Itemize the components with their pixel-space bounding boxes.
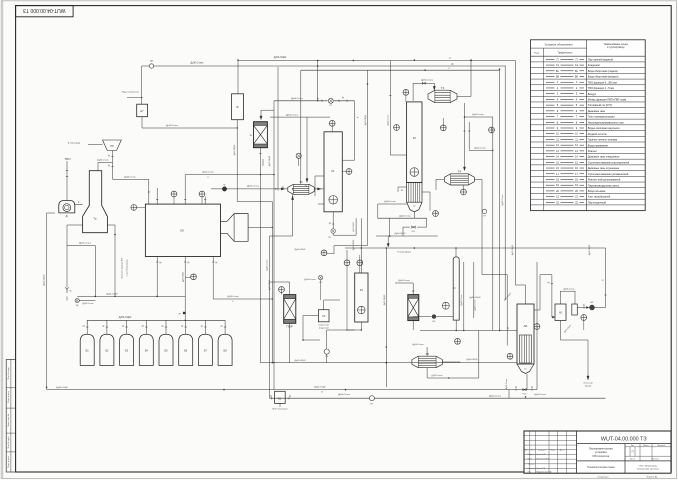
svg-text:Ду25-Сталь: Ду25-Сталь — [432, 375, 443, 377]
svg-text:Ду50-Сталь: Ду50-Сталь — [304, 279, 315, 281]
nozzle to vertical line — [248, 226, 272, 228]
K1 feed line with valve K7 — [274, 100, 328, 102]
legend row 17: Реагент — [531, 152, 646, 154]
svg-text:в контейнер бункер: в контейнер бункер — [126, 259, 129, 276]
valve ZD ball — [75, 299, 79, 303]
svg-text:установка: установка — [595, 451, 607, 454]
pump VR — [590, 305, 595, 310]
svg-text:Инв. № подл.: Инв. № подл. — [7, 366, 10, 379]
OK bottom pipes — [156, 257, 158, 297]
svg-text:Ду: Ду — [547, 282, 549, 284]
svg-text:Ду50-Сталь: Ду50-Сталь — [286, 114, 299, 116]
C3 connections — [303, 315, 318, 317]
title block doc number cell — [577, 443, 671, 445]
svg-text:Сброс конд.: Сброс конд. — [318, 324, 329, 326]
title block name cell — [624, 444, 626, 474]
svg-text:Технологическая схема: Технологическая схема — [587, 466, 615, 469]
legend row 12: Несконденсировавшиеся газы — [531, 124, 646, 126]
svg-text:Пар горячий водяной: Пар горячий водяной — [588, 57, 614, 61]
valve KR on riser — [183, 312, 186, 314]
svg-text:Ду50-ОЦ02: Ду50-ОЦ02 — [353, 222, 355, 231]
svg-text:Ду50-ОЦ02: Ду50-ОЦ02 — [269, 279, 271, 290]
svg-text:Изм.: Изм. — [525, 449, 529, 451]
legend row 4: Вода оборотная (возврат) — [531, 78, 646, 80]
vessel E7 (tank) — [137, 104, 148, 117]
cylinder Б2 riser — [106, 320, 108, 334]
bottom long line y389 — [47, 389, 537, 391]
legend row 24: Вода питьевая — [531, 192, 646, 194]
svg-text:Ф: Ф — [236, 105, 238, 109]
O adsorber pipes — [412, 283, 414, 295]
valve KS2 — [523, 389, 526, 391]
svg-text:Ду: Ду — [187, 262, 189, 264]
svg-text:Ду: Ду — [108, 165, 110, 167]
svg-text:Дымовые газы осушенные: Дымовые газы осушенные — [588, 166, 620, 170]
OK bottom instrument stub — [185, 276, 190, 278]
svg-text:Пар вторичный: Пар вторичный — [588, 200, 607, 204]
left margin line — [2, 1, 4, 479]
svg-text:Ду25-Сталь: Ду25-Сталь — [79, 243, 92, 245]
svg-text:П: П — [576, 58, 578, 61]
K3 connections — [360, 218, 362, 273]
E7 to OK pipe — [141, 117, 143, 128]
svg-text:8: 8 — [207, 177, 208, 179]
svg-text:Пров.: Пров. — [528, 459, 533, 461]
svg-text:Несконденсировавшиеся газы: Несконденсировавшиеся газы — [588, 120, 624, 124]
legend row 9: Топливный газ (СУГ) — [531, 107, 646, 109]
svg-text:Ду: Ду — [221, 325, 223, 327]
instrument at OK left — [131, 205, 137, 211]
svg-text:Лист: Лист — [531, 449, 535, 451]
instrument above OK 1 — [171, 191, 177, 197]
legend row 22: Реагент нейтрализованный — [531, 181, 646, 183]
vertical from bus x390 — [389, 61, 391, 156]
svg-text:Реагент: Реагент — [588, 149, 598, 153]
svg-text:Разраб.: Разраб. — [528, 454, 535, 456]
legend row 14: Жидкий остаток — [531, 135, 646, 137]
svg-text:WUT-04.00.000 ТЗ: WUT-04.00.000 ТЗ — [601, 437, 647, 443]
svg-text:С3: С3 — [322, 314, 326, 318]
misc short pipe stubs — [303, 339, 320, 341]
A adsorber feed route — [273, 101, 275, 390]
instrument left of K2 — [394, 125, 400, 131]
legend row 6: ТБО фракция 1...5 мм — [531, 90, 646, 92]
svg-text:Т.контр.: Т.контр. — [528, 463, 535, 465]
column K1 — [324, 132, 342, 212]
T1 bottom pipe down to E2 — [292, 194, 294, 236]
svg-text:Взам. инв. №: Взам. инв. № — [7, 413, 10, 426]
bottom long line y362 — [261, 362, 518, 364]
vertical line x301 — [300, 117, 302, 185]
svg-text:Ду50-Сталь: Ду50-Сталь — [388, 115, 390, 126]
cylinder Б8 — [218, 334, 232, 365]
bus1 left drop to F — [237, 61, 239, 94]
legend row 19: Суспензия аммония растворенный — [531, 164, 646, 166]
svg-text:Формат А1: Формат А1 — [646, 476, 658, 479]
svg-text:WUT-04.00.000 ТЗ: WUT-04.00.000 ТЗ — [23, 7, 65, 13]
K1 internal stirrer bottom — [329, 196, 338, 205]
instrument right of AB — [534, 324, 540, 330]
vertical pipe x537 — [536, 262, 538, 390]
N5 pump pipes — [413, 316, 431, 318]
svg-text:Ду: Ду — [181, 325, 183, 327]
K1 top instrument stem — [331, 126, 333, 132]
cylinder Б1 — [80, 334, 94, 365]
P4 pump down pipe — [326, 354, 328, 362]
cylinder Б4 riser — [145, 320, 147, 334]
svg-text:Ду: Ду — [161, 325, 163, 327]
svg-text:Ду: Ду — [108, 155, 110, 157]
svg-text:Ду50-ОЦ02: Ду50-ОЦ02 — [470, 297, 482, 299]
right vertical 499 — [499, 70, 501, 330]
svg-text:Ду: Ду — [342, 97, 344, 99]
instrument left of AB — [507, 353, 513, 359]
heat exchanger T5 — [412, 356, 443, 368]
svg-text:Вода промывная: Вода промывная — [588, 143, 609, 147]
K3 internal circle — [358, 306, 366, 314]
pipe PG vertical to E7 — [142, 65, 150, 67]
heat exchanger T4 — [444, 174, 474, 185]
column K2 body — [407, 102, 422, 182]
svg-text:Н.контр.: Н.контр. — [528, 468, 536, 470]
K2 instrument stem — [405, 95, 407, 102]
top bus line 3 — [301, 69, 500, 71]
valve K3 on K1 drain — [331, 229, 336, 234]
cylinder Б7 — [198, 334, 212, 365]
svg-text:Топливный газ (СУГ): Топливный газ (СУГ) — [588, 103, 613, 107]
vertical from VR to atmosphere line — [605, 248, 607, 308]
svg-text:К1: К1 — [331, 169, 335, 173]
adsorber A — [254, 122, 268, 126]
svg-text:Ду: Ду — [142, 325, 144, 327]
svg-text:Угольный: Угольный — [583, 382, 593, 385]
instrument below K2 — [433, 211, 439, 217]
svg-text:Ду50-Сталь: Ду50-Сталь — [190, 61, 204, 64]
svg-text:Суспензия аммония увлажненный: Суспензия аммония увлажненный — [588, 172, 629, 176]
K1 right side pipes — [342, 159, 354, 161]
svg-text:ВОК технология: ВОК технология — [273, 409, 288, 411]
svg-text:Тр: Тр — [93, 217, 97, 221]
svg-text:Гусев С.В.: Гусев С.В. — [537, 454, 546, 456]
svg-text:НР: НР — [110, 145, 114, 148]
svg-text:Ду50-ОЦ02: Ду50-ОЦ02 — [234, 144, 236, 155]
svg-text:Ду: Ду — [507, 328, 509, 330]
instrument K1 drain — [321, 250, 327, 256]
svg-text:12: 12 — [601, 280, 603, 282]
K1 bottom pipe — [332, 212, 334, 229]
svg-text:Ду50-Сталь: Ду50-Сталь — [398, 280, 409, 282]
svg-text:СВЧ-пиролиза: СВЧ-пиролиза — [592, 455, 609, 458]
instrument below A5 — [581, 315, 587, 321]
AB bottom outlet — [526, 374, 528, 390]
svg-text:Подп. и дата: Подп. и дата — [8, 390, 10, 403]
T1 top feed pipe — [306, 117, 308, 180]
charcoal line — [561, 339, 589, 341]
svg-text:Азот газообразный: Азот газообразный — [588, 195, 611, 199]
svg-text:Лит.: Лит. — [631, 445, 635, 447]
svg-text:Изготовл. вручную ТБО: Изготовл. вручную ТБО — [122, 257, 124, 278]
svg-text:Ду50-ОЦ02: Ду50-ОЦ02 — [512, 244, 514, 255]
svg-text:Гусев С.В.: Гусев С.В. — [537, 468, 546, 470]
legend row 11: Газы термодеструкции — [531, 118, 646, 120]
svg-text:А: А — [250, 133, 252, 137]
svg-text:Б2: Б2 — [105, 349, 109, 353]
T5 bottom drain — [426, 368, 428, 378]
svg-text:Газы термодеструкции: Газы термодеструкции — [588, 115, 615, 119]
cylinder Б5 riser — [165, 320, 167, 334]
K2 bottom line left — [378, 217, 427, 219]
A5 top route to small vessel — [559, 291, 561, 304]
svg-text:Б6: Б6 — [184, 349, 188, 353]
svg-text:Ду: Ду — [515, 387, 517, 389]
svg-text:Водно-смоляная эмульсия: Водно-смоляная эмульсия — [588, 126, 620, 130]
title block lit-mass-scale grid — [625, 446, 671, 448]
svg-text:Б3: Б3 — [125, 349, 129, 353]
svg-text:Ду50-Сталь: Ду50-Сталь — [461, 295, 463, 306]
svg-text:Р-атмосфера: Р-атмосфера — [397, 251, 411, 254]
svg-text:1в: 1в — [357, 117, 359, 119]
pipe blower to chimney — [75, 204, 83, 206]
small vessel right of A5 — [572, 304, 578, 315]
svg-text:Букв.: Букв. — [534, 53, 540, 55]
instrument above OK 2 — [199, 191, 205, 197]
svg-text:Е7: Е7 — [140, 109, 144, 113]
junction dots — [237, 59, 239, 61]
F route horizontal — [237, 201, 272, 203]
svg-text:Ду50-ОЦ02: Ду50-ОЦ02 — [182, 272, 184, 282]
svg-text:ТБО фракция 0...300 мм: ТБО фракция 0...300 мм — [588, 80, 617, 84]
svg-text:Ду25-Сталь: Ду25-Сталь — [82, 303, 93, 305]
svg-text:Ду50-ОЦ02: Ду50-ОЦ02 — [295, 249, 307, 251]
top-left document stamp (rotated) — [16, 6, 74, 17]
legend table frame — [531, 40, 646, 211]
svg-text:Б7: Б7 — [204, 349, 208, 353]
K1 left side pipes — [315, 175, 324, 177]
svg-text:Экспериментальная: Экспериментальная — [589, 448, 613, 451]
A bottom drain down — [260, 175, 262, 363]
valve KG dark — [222, 187, 226, 191]
cylinder Б2 — [100, 334, 114, 365]
title block left grid — [524, 435, 577, 437]
svg-text:Ду50-Сталь: Ду50-Сталь — [338, 394, 351, 396]
instrument below T4 stub — [463, 185, 465, 189]
AB bottom cone — [517, 364, 534, 374]
column K3 — [355, 273, 368, 322]
reactor outlet nozzle — [221, 214, 249, 242]
svg-text:АБ: АБ — [524, 324, 528, 328]
svg-text:Горячие печные топлива: Горячие печные топлива — [588, 138, 618, 142]
cylinder Б6 — [179, 334, 193, 365]
svg-text:Ефременков В.В.: Ефременков В.В. — [537, 470, 553, 473]
legend row 13: Водно-смоляная эмульсия — [531, 130, 646, 132]
svg-text:Вода оборотная (возврат): Вода оборотная (возврат) — [588, 75, 619, 79]
legend row 2: Конденсат — [531, 67, 646, 69]
svg-text:Ду50-ОЦ02: Ду50-ОЦ02 — [56, 387, 68, 389]
pipes pair down to T4 — [464, 117, 466, 155]
chimney Tr (stack) — [83, 171, 108, 233]
svg-text:Ду50-Сталь: Ду50-Сталь — [489, 395, 502, 397]
K1 feed drop — [354, 101, 356, 160]
instrument below K1 b — [357, 260, 363, 266]
top bus line 1 — [238, 60, 515, 62]
svg-text:Ду50-Сталь: Ду50-Сталь — [534, 394, 545, 396]
POR adsorber pipes — [281, 292, 283, 294]
svg-text:Т3: Т3 — [441, 86, 445, 90]
svg-text:Подп. и дата: Подп. и дата — [8, 455, 10, 468]
svg-text:Подп.: Подп. — [551, 449, 556, 451]
svg-text:Межкр.фракция ПВТ(+ПВГ+саж): Межкр.фракция ПВТ(+ПВГ+саж) — [588, 98, 627, 102]
cylinder Б1 riser — [86, 320, 88, 334]
svg-text:Ду: Ду — [583, 305, 585, 307]
vent Y symbol — [65, 287, 68, 293]
svg-text:Вода питьевая: Вода питьевая — [588, 189, 606, 193]
bus1 drop at 515 — [514, 61, 516, 286]
cylinder Б3 — [120, 334, 134, 365]
svg-text:Д: Д — [65, 214, 67, 218]
svg-text:П: П — [557, 58, 559, 61]
K1 bottom to instruments — [346, 250, 348, 260]
svg-text:П: П — [632, 450, 634, 454]
svg-text:Ду50-Сталь: Ду50-Сталь — [267, 260, 269, 271]
adsorber O — [408, 295, 419, 299]
instrument above POR — [279, 287, 285, 293]
AB right pipe to A5 — [534, 309, 540, 311]
instrument below OK — [191, 274, 197, 280]
svg-text:Суспензия аммония растворенный: Суспензия аммония растворенный — [588, 160, 630, 164]
instrument below K1 a — [344, 260, 350, 266]
svg-text:Парогазовоздушная смесь: Парогазовоздушная смесь — [588, 183, 620, 187]
pump N1 — [318, 275, 322, 279]
svg-text:Ду50-Сталь: Ду50-Сталь — [421, 79, 434, 81]
svg-text:Вода техническая: Вода техническая — [122, 91, 139, 93]
legend row 7: Воздух — [531, 95, 646, 97]
long vertical x272 — [271, 202, 273, 363]
svg-text:технические системы": технические системы" — [637, 469, 660, 471]
K1 drain to line 218 — [333, 234, 356, 236]
svg-text:Б8: Б8 — [224, 349, 228, 353]
svg-text:в трубопроводе: в трубопроводе — [607, 46, 625, 49]
AB tube bundle — [520, 335, 532, 363]
svg-text:Дымовые газы: Дымовые газы — [588, 109, 605, 113]
svg-text:Ду: Ду — [329, 223, 331, 225]
svg-text:Лист 1: Лист 1 — [630, 459, 635, 461]
instrument near A stub — [262, 159, 264, 166]
svg-text:10: 10 — [321, 392, 323, 394]
cylinder header pipe — [87, 319, 225, 321]
svg-text:Ду50-Сталь: Ду50-Сталь — [474, 148, 485, 150]
pump P4 — [324, 349, 329, 354]
svg-text:(в дренаж): (в дренаж) — [319, 328, 329, 330]
svg-text:Ду50-ОЦ02: Ду50-ОЦ02 — [44, 274, 46, 286]
svg-text:Ду: Ду — [270, 395, 272, 397]
svg-text:Ду50-ОЦ02: Ду50-ОЦ02 — [269, 155, 271, 166]
funnel feed to OK — [113, 178, 149, 180]
cylinder Б4 — [139, 334, 153, 365]
svg-text:бункер: бункер — [585, 386, 592, 388]
instrument above K2 — [403, 89, 409, 95]
svg-text:Реагент нейтрализованный: Реагент нейтрализованный — [588, 178, 621, 182]
OK drain right leg — [213, 298, 272, 300]
svg-text:Б1: Б1 — [86, 349, 90, 353]
svg-text:Ду50-Сталь: Ду50-Сталь — [506, 379, 508, 389]
reactor box OK — [145, 204, 220, 256]
svg-text:В атмосферу: В атмосферу — [68, 141, 80, 144]
svg-text:Ду50-Сталь: Ду50-Сталь — [412, 344, 423, 346]
svg-text:ООО "Инженерно-: ООО "Инженерно- — [639, 465, 658, 467]
svg-text:6: 6 — [232, 301, 233, 303]
legend row 16: Вода промывная — [531, 147, 646, 149]
pump NG — [369, 396, 374, 401]
legend row 3: Вода оборотная (подача) — [531, 72, 646, 74]
bus2 drop at 505 — [504, 65, 506, 300]
svg-text:Ду50-Сталь: Ду50-Сталь — [399, 215, 410, 217]
filter vessel F — [232, 94, 244, 120]
vertical line x386 — [385, 248, 387, 387]
T1 connections — [211, 188, 288, 190]
svg-text:Ду50-ОЦ02: Ду50-ОЦ02 — [395, 233, 407, 235]
vertical line x367 with elbow — [367, 70, 369, 245]
adsorber POR — [284, 295, 296, 299]
A bottom line to OK — [185, 174, 274, 176]
VR outlet up — [594, 307, 605, 309]
svg-text:Ду50-ОЦ02: Ду50-ОЦ02 — [467, 359, 479, 361]
svg-text:Ду: Ду — [102, 325, 104, 327]
valve K7 — [328, 98, 333, 103]
svg-text:Ду50-Сталь: Ду50-Сталь — [502, 195, 504, 206]
T4 connections — [436, 178, 444, 180]
svg-text:№ докум.: № докум. — [538, 448, 546, 451]
svg-text:Ду50-ОЦ02: Ду50-ОЦ02 — [295, 360, 307, 362]
legend row 1: Пар горячий водяной — [531, 61, 646, 63]
svg-text:Б4: Б4 — [145, 349, 149, 353]
svg-text:Ду: Ду — [83, 325, 85, 327]
svg-text:Ду25-ОЦ02: Ду25-ОЦ02 — [106, 294, 118, 296]
K2 bottom cone T2 — [407, 202, 422, 212]
svg-text:ОК: ОК — [180, 229, 184, 233]
chimney base pipe left — [67, 224, 83, 226]
svg-text:Ду50-ОЦ02: Ду50-ОЦ02 — [384, 294, 386, 305]
small vessel to VR pump — [577, 307, 589, 309]
side stamp table — [6, 360, 15, 473]
svg-text:Ду: Ду — [201, 325, 203, 327]
legend row 23: Парогазовоздушная смесь — [531, 187, 646, 189]
left pipe from blower area — [47, 212, 55, 214]
svg-text:Ду50-Сталь: Ду50-Сталь — [202, 172, 213, 174]
svg-text:ТБО: ТБО — [64, 157, 71, 161]
funnel connection down — [112, 151, 114, 180]
A5 bottom drain — [560, 321, 562, 341]
svg-text:Ду40-Сталь: Ду40-Сталь — [97, 160, 108, 162]
gas meter circle PG — [149, 64, 153, 68]
funnel hopper NR — [103, 140, 122, 151]
svg-text:Жидкий остаток: Жидкий остаток — [588, 132, 608, 136]
cylinder Б5 — [159, 334, 173, 365]
svg-text:Ду: Ду — [305, 186, 307, 188]
pump N2 — [296, 153, 301, 158]
instrument right of T3 — [489, 127, 495, 133]
P7 small circle — [482, 209, 486, 213]
svg-text:Ду50-Сталь: Ду50-Сталь — [472, 114, 483, 116]
vertical pipe x463 — [463, 262, 465, 331]
svg-text:Дата: Дата — [560, 449, 564, 451]
svg-text:Ду40-Сталь: Ду40-Сталь — [124, 177, 135, 179]
K2 left pipes — [390, 154, 406, 156]
T2 bottom outlet pipe — [413, 212, 415, 218]
big instrument near dr column — [442, 302, 449, 309]
left long vertical pipe — [46, 213, 48, 390]
blower D (dymosos) — [59, 201, 75, 213]
legend row 5: ТБО фракция 0...300 мм — [531, 84, 646, 86]
